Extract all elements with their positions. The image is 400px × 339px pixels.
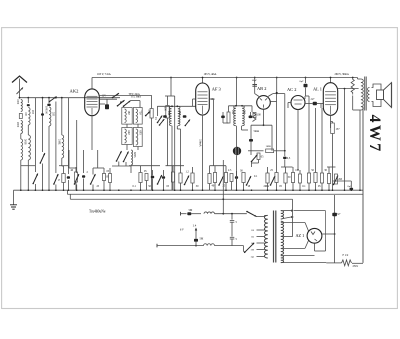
switch volume [252, 155, 258, 162]
wire vertical feed [222, 160, 224, 199]
wire [27, 125, 29, 135]
IFT2 top wire [229, 105, 253, 107]
svg-text:100: 100 [24, 112, 27, 117]
wire [276, 150, 278, 173]
resistor 0.5 [102, 174, 105, 181]
resistor 40 [213, 173, 216, 183]
svg-text:30: 30 [196, 185, 199, 188]
IFT2 primary [234, 106, 236, 126]
antenna [12, 76, 27, 83]
svg-text:0,5: 0,5 [287, 157, 291, 160]
osc trimmer can [133, 108, 142, 125]
wire AF3 anode right [209, 98, 213, 100]
wire [306, 95, 310, 97]
wire [330, 122, 332, 129]
mains terminal [156, 244, 158, 248]
resistor [327, 174, 330, 184]
svg-text:Tru4ß0uNе: Tru4ß0uNе [89, 210, 106, 214]
svg-text:AL 1: AL 1 [313, 86, 322, 91]
svg-text:165 V, 7 mA: 165 V, 7 mA [97, 73, 111, 76]
svg-text:1.2: 1.2 [186, 170, 190, 173]
coil L2 [21, 121, 23, 134]
wire output return [359, 110, 361, 190]
resistor 230 [150, 109, 153, 119]
capacitor [299, 174, 302, 183]
svg-text:25: 25 [97, 185, 100, 188]
wire screen drop [344, 89, 346, 191]
padder trimmer [146, 112, 150, 116]
osc trimmer winding [136, 109, 138, 123]
svg-text:4µF: 4µF [311, 97, 316, 100]
capacitor 0.5 [284, 151, 286, 156]
wire [171, 126, 173, 190]
switch [271, 176, 276, 185]
svg-text:18: 18 [248, 185, 251, 188]
svg-text:50: 50 [311, 169, 314, 172]
svg-text:2: 2 [87, 171, 89, 174]
svg-text:2M: 2M [338, 178, 342, 181]
svg-text:5M: 5M [189, 209, 193, 212]
IFT1 trim cap [163, 115, 167, 118]
power transformer tap 110 [257, 229, 265, 231]
capacitor [235, 176, 238, 179]
svg-text:05: 05 [318, 185, 321, 188]
svg-text:5M: 5M [200, 238, 204, 241]
coil L1 aerial [21, 100, 23, 112]
switch [219, 176, 224, 185]
svg-text:15: 15 [154, 117, 157, 120]
wire [257, 216, 265, 218]
IFT2 secondary [242, 106, 244, 126]
wire link [112, 165, 131, 167]
resistor [179, 173, 182, 183]
switch [247, 176, 252, 185]
resistor [307, 173, 310, 183]
svg-text:05: 05 [279, 185, 282, 188]
wire [174, 96, 176, 190]
wire AL1 cathode [330, 115, 332, 121]
mains choke lower [204, 244, 215, 246]
tube AF3 [196, 83, 210, 115]
wire IFT2 HT drop [236, 78, 238, 106]
wire aerial input bus [20, 97, 121, 99]
svg-text:25: 25 [270, 169, 273, 172]
osc coil winding 2 [125, 129, 127, 143]
output transformer secondary [368, 88, 370, 102]
wire AK2 cathode [91, 116, 93, 150]
IFT1 trimmer switch 2 [185, 120, 190, 126]
resistor [171, 172, 174, 182]
wire [99, 98, 117, 100]
pilot lamp arrow [195, 229, 197, 235]
volume potentiometer [233, 147, 241, 155]
capacitor 100 [48, 98, 50, 103]
HT winding [281, 221, 284, 254]
wire [67, 98, 69, 174]
wire [215, 245, 244, 247]
capacitor trim [41, 113, 44, 115]
tube AZ1 [307, 228, 322, 243]
tube AC2 [291, 96, 305, 110]
resistor 50 [284, 173, 287, 183]
svg-text:050: 050 [242, 110, 245, 115]
wire [271, 125, 273, 151]
svg-text:110: 110 [251, 230, 255, 232]
svg-text:660: 660 [127, 131, 130, 136]
osc winding 3 [136, 129, 138, 145]
svg-text:05: 05 [107, 170, 110, 173]
svg-text:8µF: 8µF [300, 80, 305, 83]
wire [55, 102, 57, 174]
svg-text:AB 2: AB 2 [257, 86, 266, 91]
wire AF3 anode [202, 78, 204, 84]
IFT1 secondary [178, 106, 180, 126]
capacitor [82, 175, 85, 177]
resistor 1M ohm [266, 149, 274, 153]
HT centre tap [281, 236, 293, 238]
voltage selector arm [245, 243, 255, 253]
resistor 2M [266, 173, 269, 183]
osc can 3 [133, 128, 142, 147]
svg-text:30: 30 [324, 169, 327, 172]
wire [42, 98, 44, 152]
heater leads [281, 210, 291, 212]
resistor [314, 173, 317, 183]
wire AL1 anode top [330, 78, 332, 83]
IFT1 trimmer switch [160, 119, 165, 125]
mains switch [247, 212, 257, 217]
capacitor [249, 139, 253, 142]
svg-text:1MΩ: 1MΩ [266, 145, 271, 148]
wire [20, 160, 22, 190]
coil L3 [21, 139, 23, 160]
tube AB2 [257, 96, 271, 110]
switch [185, 176, 190, 185]
osc coil winding [125, 109, 127, 123]
output transformer core [364, 77, 366, 111]
svg-text:100: 100 [257, 114, 262, 117]
svg-text:AC 2: AC 2 [287, 87, 296, 92]
wire AB2 to AVC rail [276, 78, 278, 96]
output choke resistor [351, 78, 354, 95]
band switch S2 [40, 153, 45, 163]
mains choke [204, 212, 215, 214]
smoothing line [334, 195, 336, 263]
loudspeaker [372, 84, 382, 107]
svg-text:0.1: 0.1 [302, 185, 306, 188]
wire AC2 anode [304, 96, 306, 99]
svg-text:5: 5 [236, 238, 238, 241]
svg-text:125: 125 [251, 237, 255, 239]
resistor [320, 173, 323, 183]
svg-text:137: 137 [336, 128, 341, 131]
osc band switch [117, 151, 122, 161]
mains terminal upper [180, 212, 182, 216]
AVC bus [66, 190, 68, 194]
wire osc to HT [170, 78, 172, 97]
mains line lower [157, 245, 204, 247]
svg-text:30: 30 [240, 170, 243, 173]
svg-text:L 4: L 4 [193, 225, 197, 228]
rectifier heater winding [281, 256, 284, 263]
wire [228, 106, 230, 112]
wire AB2 plate left [254, 88, 256, 94]
svg-text:AF 3: AF 3 [212, 87, 222, 92]
wire AL1 grid [320, 104, 322, 109]
svg-text:12V: 12V [102, 95, 107, 98]
diode load zigzag [253, 113, 257, 122]
wire osc grid [99, 95, 152, 97]
AZ1 filament loop [314, 243, 316, 251]
svg-text:100: 100 [45, 110, 48, 115]
wire link [210, 165, 227, 167]
svg-text:5mΩ: 5mΩ [254, 130, 259, 133]
svg-text:250: 250 [231, 110, 234, 115]
power transformer core [273, 211, 275, 263]
wire [68, 150, 70, 168]
svg-text:AZ 1: AZ 1 [296, 233, 305, 238]
wire [156, 106, 158, 116]
switch [158, 175, 162, 184]
IFT2 trim cap [221, 116, 225, 119]
ground [13, 190, 15, 204]
coil [49, 107, 51, 126]
HT bottom lead [281, 247, 305, 249]
resistor 100 [253, 113, 256, 118]
wire IFT2 secondary down [241, 126, 243, 130]
svg-text:6033: 6033 [133, 152, 136, 158]
svg-text:2.5: 2.5 [228, 169, 232, 172]
wire mains earth line [326, 262, 341, 264]
svg-text:05: 05 [167, 185, 170, 188]
wire [76, 120, 78, 173]
switch [75, 174, 79, 184]
wire AC2 cathode [297, 110, 299, 171]
svg-text:050: 050 [178, 111, 181, 116]
capacitor 5 [231, 214, 233, 220]
supply bus [69, 194, 71, 199]
resistor 1M [227, 112, 230, 123]
wire [215, 213, 247, 215]
wire [167, 96, 169, 106]
wire AL1 plate right [338, 88, 359, 90]
svg-text:310E: 310E [57, 139, 60, 145]
svg-text:260 V, 36mA: 260 V, 36mA [335, 73, 349, 76]
svg-text:2MΩ: 2MΩ [264, 185, 270, 188]
resistor 25 [224, 173, 227, 183]
wire AZ1 cathode out [322, 233, 335, 235]
coil aerial secondary [27, 98, 29, 103]
resistor [230, 174, 233, 182]
osc coil pack can [122, 108, 132, 125]
svg-text:5: 5 [236, 221, 238, 224]
wire coupling drop [284, 94, 286, 151]
capacitor 5 lower [230, 236, 235, 238]
wire AC2 grid [288, 102, 291, 104]
wire [126, 124, 128, 127]
resistor [191, 173, 194, 183]
wire [176, 126, 178, 129]
capacitor [162, 176, 165, 178]
svg-text:4W7: 4W7 [366, 115, 383, 154]
wire AB2 cathode [263, 109, 265, 125]
svg-text:0.1: 0.1 [254, 175, 258, 178]
resistor 0.5 det [257, 153, 260, 160]
IFT1 primary [169, 106, 171, 126]
svg-text:TTL 3mA: TTL 3mA [131, 96, 142, 99]
svg-text:245: 245 [251, 257, 255, 259]
wavechange switch [113, 93, 120, 97]
wire link [166, 165, 185, 167]
svg-text:1000: 1000 [16, 99, 19, 105]
wire [151, 96, 153, 109]
svg-text:05: 05 [106, 176, 109, 179]
capacitor padding [27, 104, 30, 106]
wire [222, 118, 224, 123]
wire link [21, 165, 36, 167]
wire right edge [362, 107, 364, 263]
tap 125 [257, 236, 265, 238]
wire link [129, 165, 160, 167]
wire [333, 180, 352, 182]
wire link [281, 166, 293, 168]
capacitor [151, 176, 154, 179]
svg-text:05: 05 [144, 170, 147, 173]
wire link [327, 166, 336, 168]
svg-text:8µF: 8µF [337, 213, 342, 216]
osc coil pack can 2 [122, 128, 132, 145]
wire [248, 150, 264, 152]
wire AB2 plate right [268, 94, 273, 97]
grid capacitor [105, 104, 109, 109]
wire IFT2 primary down [236, 126, 238, 147]
wire [83, 150, 85, 173]
heater winding 4V [281, 211, 284, 219]
svg-text:AK2: AK2 [70, 89, 80, 94]
wire filter branch [222, 199, 224, 214]
svg-text:40: 40 [71, 169, 74, 172]
IFT2 trim cap 2 [249, 116, 253, 119]
wire [97, 150, 99, 168]
tube AL1 [323, 83, 337, 116]
switch [54, 174, 58, 184]
resistor [74, 172, 77, 182]
HT top lead [281, 222, 305, 224]
resistor 250 [166, 106, 169, 119]
osc padder [131, 150, 133, 165]
tap 200 [257, 249, 265, 251]
output transformer primary [357, 78, 359, 80]
resistor [208, 174, 211, 184]
coil 3018 [28, 135, 30, 160]
svg-text:50: 50 [288, 176, 291, 179]
capacitor 5M lower [195, 234, 197, 239]
band switch S1 [33, 174, 38, 184]
svg-text:3018: 3018 [24, 139, 27, 145]
resistor [275, 173, 278, 183]
wire [281, 255, 315, 257]
svg-text:50: 50 [148, 185, 151, 188]
HT rail top [92, 77, 358, 79]
wire [251, 106, 253, 112]
tuning gang switch [91, 174, 96, 184]
wire AF3 cathode [202, 115, 204, 190]
tone switch [334, 176, 339, 185]
svg-text:250: 250 [167, 111, 170, 116]
antenna trimmer arrow [17, 88, 24, 95]
svg-text:0.1: 0.1 [133, 185, 137, 188]
wire AK2 anode to HT rail [91, 78, 93, 90]
wire [131, 100, 141, 102]
svg-text:203: 203 [31, 110, 34, 115]
svg-text:603: 603 [138, 131, 141, 136]
svg-text:165 V, 4mA: 165 V, 4mA [204, 73, 217, 76]
tap 145 [257, 242, 265, 244]
svg-text:40: 40 [58, 180, 61, 182]
svg-text:180: 180 [127, 111, 130, 116]
wire [274, 150, 285, 152]
wire centre tap drop [292, 199, 294, 236]
wire [34, 98, 36, 172]
wire [236, 147, 238, 155]
svg-text:F 1/2: F 1/2 [343, 254, 349, 257]
cathode resistor 137 [331, 123, 335, 134]
aerial change-over switch [50, 97, 57, 102]
resistor 2M [335, 174, 338, 184]
wire [352, 96, 354, 111]
IFT1 trim cap 2 [183, 115, 187, 118]
svg-text:05: 05 [261, 156, 264, 159]
IF transformer 1 top wire [157, 105, 196, 107]
svg-text:200: 200 [251, 250, 255, 252]
tap 245 [257, 256, 265, 258]
capacitor aerial series [19, 114, 22, 119]
svg-text:730: 730 [138, 111, 141, 116]
svg-text:1M: 1M [295, 169, 299, 172]
capacitor [67, 176, 70, 178]
resistor [291, 173, 294, 183]
resistor 30 [242, 173, 245, 183]
resistor 0.5 [145, 174, 148, 181]
svg-text:40: 40 [212, 185, 215, 188]
wire [61, 98, 63, 135]
wire [352, 262, 363, 264]
chassis ground bus [14, 189, 364, 191]
osc coupling switch [158, 116, 163, 123]
svg-text:6 V: 6 V [180, 228, 184, 231]
osc switch [118, 100, 125, 106]
heater feed line [294, 210, 326, 212]
svg-text:335: 335 [52, 112, 55, 117]
power transformer primary [264, 215, 267, 258]
svg-text:250v: 250v [353, 265, 359, 268]
svg-text:3.6mA: 3.6mA [199, 139, 202, 147]
svg-text:2000: 2000 [16, 122, 19, 128]
resistor [139, 173, 142, 183]
resistor 0.5 [109, 174, 112, 183]
coil 310E [62, 135, 64, 158]
coil [28, 108, 30, 126]
wire AF3 grid side [193, 98, 196, 100]
tube AK2 [85, 89, 100, 116]
resistor 40 [62, 174, 65, 183]
